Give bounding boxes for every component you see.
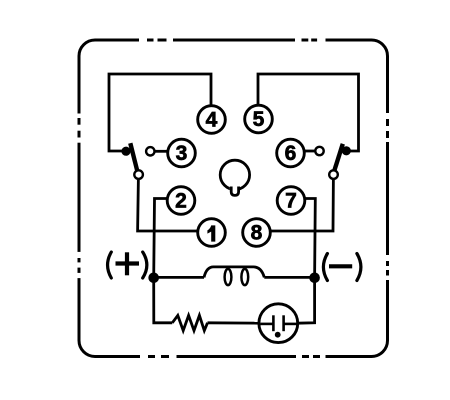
svg-text:4: 4	[206, 109, 218, 132]
coil L1	[204, 267, 264, 285]
wire pin2 to (+) node	[154, 199, 168, 278]
wire pin7 to (-) node	[305, 199, 316, 278]
wire pin4 loop to left switch	[109, 74, 211, 151]
keyway center marker	[220, 160, 249, 195]
pin 3	[168, 139, 196, 167]
wire left switch common down to pin1	[138, 178, 198, 231]
wire pin3 to left fixed contact	[155, 150, 168, 153]
pin 8	[243, 219, 271, 247]
wire coil to (-) node	[264, 276, 314, 279]
label (+)	[108, 252, 147, 278]
pin 7	[277, 187, 305, 215]
svg-text:5: 5	[253, 108, 265, 131]
left fixed contact circle	[146, 147, 154, 155]
pin 2	[167, 187, 195, 215]
right fixed contact circle	[315, 147, 323, 155]
pin 5	[245, 105, 273, 133]
neon lamp DS1	[259, 304, 298, 343]
node (-) junction dot	[309, 273, 320, 284]
node (+) junction dot	[148, 273, 159, 284]
svg-text:7: 7	[285, 190, 297, 213]
resistor R1	[172, 315, 207, 330]
svg-text:3: 3	[176, 142, 188, 165]
wire right switch common down to pin8	[270, 178, 333, 231]
relay outline border (phantom dash rounded rectangle)	[74, 35, 393, 362]
left switch common terminal circle	[134, 170, 143, 179]
label (-)	[323, 254, 361, 281]
wire pin5 loop to right switch	[258, 74, 359, 151]
left switch movable arm	[121, 143, 137, 170]
svg-text:2: 2	[175, 190, 187, 213]
pin 1	[198, 219, 226, 247]
svg-text:6: 6	[285, 142, 297, 165]
wire pin6 to right fixed contact	[304, 150, 315, 153]
wire (+) node to coil	[154, 276, 204, 279]
pin 4	[198, 106, 226, 134]
right switch common terminal circle	[329, 170, 338, 179]
pin 6	[277, 139, 305, 167]
wire (+) node down to resistor	[154, 278, 173, 323]
wire resistor to lamp	[208, 321, 261, 324]
svg-text:8: 8	[251, 222, 263, 245]
wire lamp to (-) node	[297, 278, 315, 323]
right switch movable arm	[334, 144, 351, 171]
